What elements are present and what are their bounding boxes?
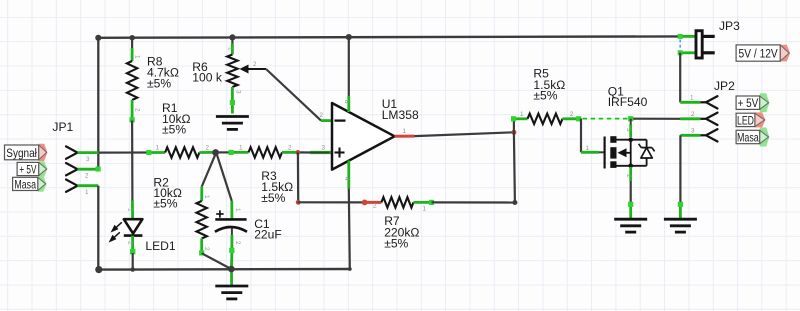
junction R1/R2/C1/R3 [212, 149, 219, 156]
node +5V top bus [98, 36, 680, 37]
pin JP1-2 [66, 163, 78, 175]
svg-text:Sygnał: Sygnał [6, 146, 37, 160]
svg-text:3: 3 [86, 156, 90, 163]
pin U1 +IN overlap [310, 151, 331, 154]
svg-text:2: 2 [127, 241, 134, 245]
svg-text:1: 1 [134, 55, 141, 59]
svg-text:LED: LED [737, 113, 754, 127]
resistor R2 [200, 187, 203, 202]
net label Masa (JP1) [38, 176, 47, 192]
wire feedback to R7 [298, 201, 364, 203]
wire dashed overlap (gate/drain) [583, 118, 630, 120]
wire output node down to R7 [514, 132, 515, 202]
wire R5 down to Q1 gate [580, 119, 582, 153]
svg-text:2: 2 [320, 112, 324, 119]
junction bottom-left [95, 266, 102, 273]
svg-text:JP3: JP3 [719, 19, 740, 33]
transistor Q1 IRF540 [603, 137, 605, 169]
svg-text:±5%: ±5% [384, 237, 408, 251]
wire dashed blue JP3 [679, 40, 681, 51]
svg-text:LM358: LM358 [382, 108, 419, 122]
junction output node (red) [511, 130, 516, 135]
net label Sygnal [39, 144, 48, 161]
svg-text:3: 3 [235, 90, 242, 94]
U1 pin1 output (red) [395, 135, 415, 138]
U1 minus sign [335, 119, 346, 121]
wire Q1 drain to JP2 pin2 [631, 118, 681, 120]
wire junction to R2 (diagonal) [202, 152, 216, 186]
svg-text:22uF: 22uF [254, 227, 282, 241]
wire U1 output to R5/R7 node [415, 132, 514, 136]
resistor R8 [131, 38, 133, 48]
wire R7 to output node [432, 201, 515, 203]
potentiometer R6 [231, 37, 233, 43]
svg-text:1: 1 [227, 47, 234, 51]
svg-text:1: 1 [690, 95, 694, 102]
svg-text:2: 2 [373, 203, 377, 210]
wire Masa vertical JP1 pin1 to bottom bus [97, 186, 99, 270]
junction C1/R2 gnd [228, 266, 235, 273]
pin JP2-1 [680, 101, 700, 104]
svg-text:2: 2 [85, 173, 89, 180]
LED LED1 [131, 201, 134, 220]
resistor R7 [365, 201, 382, 204]
svg-text:5V / 12V: 5V / 12V [739, 46, 779, 60]
junction top-left [95, 35, 101, 41]
svg-text:1: 1 [203, 195, 210, 199]
wire R2 to gnd junction (diagonal) [202, 253, 232, 269]
net label +5V (JP1) [39, 161, 48, 177]
Q1 drain stub [630, 119, 632, 125]
wire +IN down to feedback [297, 152, 300, 202]
ground under R6 [216, 117, 249, 130]
corner R7 right [512, 200, 517, 205]
svg-text:1: 1 [85, 189, 89, 196]
svg-text:±5%: ±5% [162, 122, 186, 136]
svg-text:+ 5V: + 5V [737, 96, 758, 110]
junction +IN node (red) [296, 150, 301, 155]
svg-text:±5%: ±5% [147, 76, 171, 90]
svg-text:2: 2 [691, 111, 695, 118]
pin JP1-3 [66, 146, 78, 158]
ground under C1/R2 [230, 269, 233, 285]
svg-text:100 k: 100 k [192, 71, 223, 85]
R6 wiper arrow [246, 68, 267, 70]
pin JP2-2 [680, 117, 700, 120]
ground under JP2 [664, 219, 697, 232]
U1 pin8 V+ [348, 37, 350, 96]
svg-text:1: 1 [423, 206, 427, 213]
svg-text:Masa: Masa [14, 177, 36, 191]
pin JP2-3 [680, 134, 700, 137]
net label LED [755, 112, 766, 127]
wire Sygnal to R1 [99, 151, 149, 153]
U1 plus sign [335, 148, 345, 158]
svg-text:±5%: ±5% [153, 197, 177, 211]
svg-text:3: 3 [322, 145, 326, 152]
svg-text:1: 1 [239, 145, 243, 152]
svg-text:2: 2 [625, 174, 632, 178]
svg-text:1: 1 [520, 111, 524, 118]
net label 5V/12V [780, 45, 790, 62]
node GND bottom bus [98, 268, 349, 271]
svg-text:1: 1 [234, 208, 241, 212]
wire junction to C1 (diagonal) [216, 152, 232, 201]
junction LED1 cathode [130, 267, 135, 272]
resistor R3 [231, 151, 249, 154]
net label +5V (JP2) [760, 93, 770, 112]
svg-text:1: 1 [403, 128, 407, 135]
svg-text:3: 3 [691, 128, 695, 135]
svg-text:2: 2 [570, 111, 574, 118]
svg-text:2: 2 [203, 247, 210, 251]
wire junction to R3 [216, 151, 231, 153]
pin JP1-1 [66, 180, 78, 192]
C1 plus sign [216, 210, 223, 217]
junction U1 pin8 tap [346, 34, 352, 40]
corner feedback (red) [296, 200, 301, 205]
U1 pin4 V- [347, 161, 350, 189]
svg-text:3: 3 [625, 128, 632, 132]
svg-text:1: 1 [586, 145, 590, 152]
svg-text:JP2: JP2 [714, 79, 735, 93]
svg-text:2: 2 [206, 145, 210, 152]
junction R8 tap [130, 35, 135, 40]
Q1 drain/source junctions [628, 137, 633, 142]
svg-text:2: 2 [234, 241, 241, 245]
svg-text:2: 2 [134, 108, 141, 112]
svg-text:JP1: JP1 [52, 120, 73, 134]
Q1 body diode [646, 140, 648, 148]
svg-text:±5%: ±5% [533, 89, 557, 103]
wire JP2 pin3 to ground [679, 135, 681, 204]
resistor R1 [149, 151, 166, 154]
wire R8 to LED1 [131, 121, 133, 201]
wire R3 to U1 +IN [297, 151, 311, 153]
svg-text:2: 2 [288, 145, 292, 152]
junction R6 tap [229, 34, 235, 40]
svg-text:1: 1 [156, 145, 160, 152]
net label Masa (JP2) [760, 128, 770, 147]
op-amp U1 [321, 119, 332, 122]
Q1 source stub [629, 167, 632, 181]
wire R6 wiper to U1 -IN [266, 69, 321, 121]
resistor R5 [514, 117, 528, 120]
wire +5V vertical to JP1 pin2 [97, 38, 99, 169]
svg-text:8: 8 [343, 100, 350, 104]
wire output node up to R5 [513, 119, 515, 133]
svg-text:LED1: LED1 [145, 239, 176, 253]
corner U1 pin4 [348, 267, 352, 271]
svg-text:IRF540: IRF540 [608, 95, 648, 109]
wire JP3 pin2 to JP2 pin1 [679, 53, 681, 103]
LED1 emission arrows [110, 222, 122, 241]
svg-text:1: 1 [127, 208, 134, 212]
svg-text:Masa: Masa [737, 130, 759, 144]
svg-text:+ 5V: + 5V [19, 162, 37, 176]
svg-text:2: 2 [253, 61, 257, 68]
svg-text:±5%: ±5% [261, 191, 285, 205]
svg-text:4: 4 [343, 177, 350, 181]
capacitor C1 [230, 201, 233, 219]
ground under Q1 [614, 219, 647, 232]
